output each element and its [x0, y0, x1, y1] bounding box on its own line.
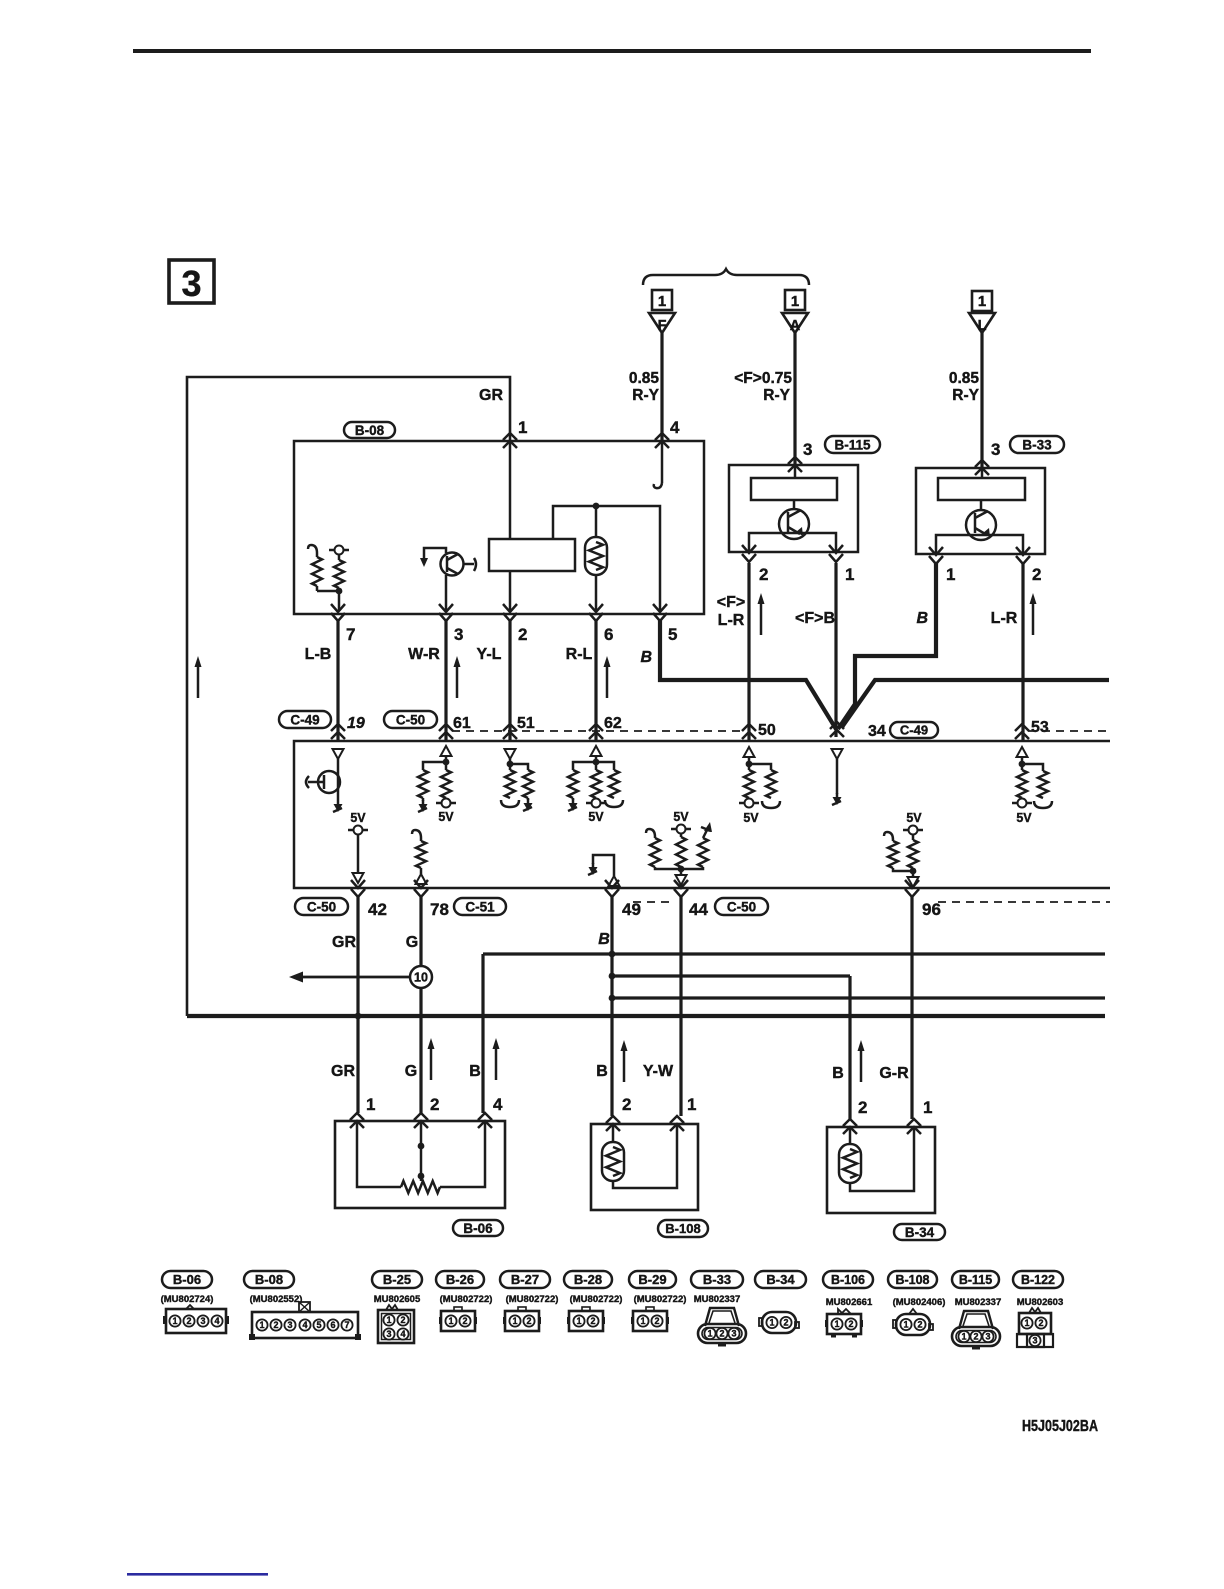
pin 49: [605, 880, 641, 919]
ECU box outline (open right): [294, 741, 1110, 888]
svg-text:4: 4: [670, 418, 680, 437]
wire G pin 78 to B-06 pin 2: [405, 897, 435, 1113]
svg-text:L-R: L-R: [718, 612, 745, 629]
wire B to B-06 pin 4: [469, 954, 499, 1113]
wire GR left loop: [187, 377, 510, 1016]
svg-text:2: 2: [719, 1329, 724, 1339]
svg-text:6: 6: [330, 1320, 335, 1330]
svg-text:1: 1: [512, 1316, 517, 1326]
svg-text:A: A: [790, 318, 801, 334]
svg-text:2: 2: [526, 1316, 531, 1326]
svg-text:1: 1: [791, 293, 799, 310]
pin 3 chevrons on B-115: [788, 440, 812, 472]
svg-text:B-06: B-06: [463, 1221, 493, 1236]
svg-text:C-50: C-50: [396, 712, 425, 727]
connector label B-08: [344, 422, 395, 438]
svg-text:(MU802722): (MU802722): [506, 1294, 559, 1305]
svg-text:1: 1: [259, 1320, 264, 1330]
svg-text:5: 5: [316, 1320, 321, 1330]
svg-text:6: 6: [604, 625, 613, 644]
svg-text:2: 2: [973, 1332, 978, 1342]
svg-text:2: 2: [858, 1098, 867, 1117]
svg-text:MU802605: MU802605: [374, 1294, 421, 1305]
B-108 pin 1 chevrons: [670, 1095, 696, 1131]
page top rule: [133, 49, 1091, 53]
svg-text:<F>0.75: <F>0.75: [734, 370, 792, 387]
svg-text:10: 10: [414, 971, 428, 985]
svg-text:2: 2: [622, 1095, 631, 1114]
legend connector B-29: [629, 1271, 686, 1331]
wire B pin 49 to B-108 pin 2: [596, 897, 627, 1116]
svg-text:4: 4: [400, 1329, 405, 1339]
wire Y-L: [477, 619, 510, 741]
connector symbol F, terminal 1: [649, 290, 675, 334]
svg-text:B: B: [640, 649, 652, 666]
svg-text:L: L: [978, 318, 987, 334]
svg-text:MU802603: MU802603: [1017, 1297, 1063, 1308]
svg-text:C-51: C-51: [465, 899, 495, 914]
ECU pin 78 resistor: [412, 830, 427, 884]
svg-text:(MU802552): (MU802552): [250, 1294, 303, 1305]
wire <F>0.75 R-Y to B-115 pin 3: [734, 333, 795, 465]
svg-text:0.85: 0.85: [949, 370, 980, 387]
B-08 internal control unit rectangle: [489, 539, 575, 571]
svg-text:R-L: R-L: [566, 646, 593, 663]
ECU pin 51 network: [501, 749, 533, 811]
legend connector B-106: [823, 1271, 873, 1338]
svg-text:C-50: C-50: [727, 899, 756, 914]
svg-text:GR: GR: [331, 1063, 355, 1080]
svg-text:R-Y: R-Y: [763, 387, 790, 404]
circled 10 reference with left arrow: [289, 966, 432, 988]
footer blue line: [127, 1573, 268, 1576]
pin 34 and label C-49: [830, 722, 938, 740]
svg-text:GR: GR: [479, 387, 503, 404]
svg-text:1: 1: [707, 1329, 712, 1339]
svg-text:(MU802722): (MU802722): [634, 1294, 687, 1305]
component box B-34 (solenoid valve): [827, 1127, 935, 1213]
ECU 5V output to pin 42: [348, 811, 368, 883]
svg-text:50: 50: [758, 722, 776, 739]
svg-text:R-Y: R-Y: [952, 387, 979, 404]
svg-text:51: 51: [517, 715, 535, 732]
connector label C-49: [279, 711, 331, 728]
svg-text:5V: 5V: [350, 811, 366, 825]
svg-text:5V: 5V: [588, 810, 604, 824]
svg-text:4: 4: [214, 1316, 219, 1326]
svg-text:B-06: B-06: [173, 1272, 201, 1287]
svg-text:H5J05J02BA: H5J05J02BA: [1022, 1418, 1098, 1435]
legend connector B-06: [161, 1271, 229, 1333]
svg-text:1: 1: [386, 1315, 391, 1325]
svg-text:3: 3: [731, 1329, 736, 1339]
dashed connector line segments: [452, 730, 744, 732]
svg-text:B: B: [916, 610, 928, 627]
svg-text:1: 1: [978, 293, 986, 310]
svg-text:<F>B: <F>B: [795, 610, 835, 627]
svg-text:1: 1: [903, 1320, 908, 1330]
svg-text:1: 1: [845, 565, 854, 584]
B-115 pin 2 chevrons: [742, 545, 768, 584]
svg-text:B: B: [832, 1065, 844, 1082]
svg-text:42: 42: [368, 900, 387, 919]
svg-text:3: 3: [1032, 1336, 1037, 1346]
svg-text:3: 3: [454, 625, 463, 644]
svg-text:7: 7: [346, 625, 355, 644]
svg-text:7: 7: [344, 1320, 349, 1330]
svg-text:62: 62: [604, 715, 622, 732]
svg-text:R-Y: R-Y: [632, 387, 659, 404]
svg-text:G: G: [405, 1063, 417, 1080]
wire Y-W pin 44 to B-108 pin 1: [643, 897, 681, 1116]
legend connector B-108: [888, 1271, 945, 1335]
svg-text:5V: 5V: [438, 810, 454, 824]
wire L-R to pin 53: [991, 563, 1037, 741]
ECU pin 53 pull-up network: [1012, 747, 1052, 825]
svg-text:G: G: [406, 934, 418, 951]
svg-text:2: 2: [848, 1319, 853, 1329]
svg-text:MU802661: MU802661: [826, 1297, 873, 1308]
svg-text:78: 78: [430, 900, 449, 919]
B-115 pin 1 chevrons: [829, 545, 854, 584]
svg-text:C-49: C-49: [900, 723, 928, 738]
svg-text:B-33: B-33: [703, 1272, 731, 1287]
figure number 3 box: [169, 260, 214, 304]
wire through rectangle to pin 2: [509, 441, 512, 539]
B-06 pin 1 chevrons: [350, 1095, 375, 1128]
wire <F> L-R to pin 50: [717, 563, 765, 741]
svg-text:GR: GR: [332, 934, 356, 951]
svg-text:C-49: C-49: [290, 712, 319, 727]
svg-text:B-115: B-115: [959, 1273, 992, 1287]
svg-text:Y-L: Y-L: [477, 646, 502, 663]
B-08 pin 7 chevrons: [331, 604, 355, 644]
pin 96: [905, 880, 941, 919]
connector label C-50: [384, 711, 437, 728]
svg-text:3: 3: [200, 1316, 205, 1326]
svg-text:W-R: W-R: [408, 646, 440, 663]
svg-text:53: 53: [1031, 719, 1049, 736]
svg-text:1: 1: [961, 1332, 966, 1342]
connector label C-50 (lower left): [295, 898, 348, 915]
svg-text:2: 2: [273, 1320, 278, 1330]
component box B-08: [294, 441, 704, 614]
pin 42: [351, 880, 387, 919]
pin 3 chevrons on B-33: [975, 440, 1000, 475]
svg-text:B-27: B-27: [511, 1272, 539, 1287]
pin 62: [589, 715, 622, 739]
svg-text:5V: 5V: [1016, 811, 1032, 825]
svg-text:B-108: B-108: [665, 1221, 700, 1236]
svg-text:4: 4: [302, 1320, 307, 1330]
wire rectangle to solenoid and pin 5: [553, 503, 660, 611]
svg-text:(MU802722): (MU802722): [570, 1294, 623, 1305]
wire GR pin 42 to B-06 pin 1: [331, 897, 358, 1113]
legend connector B-27: [500, 1271, 558, 1331]
svg-text:<F>: <F>: [717, 594, 745, 611]
B-08 pin 2 chevrons: [503, 604, 527, 644]
svg-text:1: 1: [640, 1316, 645, 1326]
junction dots on pin 49 wire: [609, 951, 616, 1002]
svg-text:L-B: L-B: [305, 646, 332, 663]
B-08 internal solenoid coil: [585, 506, 607, 611]
svg-text:2: 2: [917, 1320, 922, 1330]
svg-text:B-115: B-115: [834, 437, 871, 452]
ECU pin 61 pull-up network: [418, 746, 456, 824]
B-06 pin 2 chevrons: [414, 1095, 439, 1128]
wire 0.85 R-Y from F to B-08 pin 4: [629, 333, 662, 441]
connector label B-33: [1010, 436, 1064, 453]
pin 4 chevrons on B-08: [655, 418, 680, 448]
svg-text:(MU802722): (MU802722): [440, 1294, 493, 1305]
svg-text:1: 1: [923, 1098, 932, 1117]
legend connector B-33: [691, 1271, 746, 1347]
ECU pin 96 network: [884, 811, 923, 887]
connector label B-108: [658, 1220, 708, 1237]
svg-text:2: 2: [462, 1316, 467, 1326]
legend connector B-115: [952, 1271, 1001, 1350]
svg-text:1: 1: [658, 293, 666, 310]
svg-text:Y-W: Y-W: [643, 1063, 674, 1080]
svg-text:(MU802724): (MU802724): [161, 1294, 214, 1305]
component box B-06 (potentiometer): [335, 1121, 505, 1208]
B-08 pin 5 chevrons: [653, 604, 677, 644]
svg-text:1: 1: [834, 1319, 839, 1329]
svg-text:1: 1: [172, 1316, 177, 1326]
svg-text:4: 4: [493, 1095, 503, 1114]
B-08 pin 3 chevrons: [439, 604, 463, 644]
horizontal wire y998: [612, 996, 1105, 999]
svg-text:34: 34: [868, 723, 886, 740]
B-08 internal transistor: [420, 548, 476, 611]
horizontal wire y954: [483, 952, 1105, 955]
wire B from B-33 pin 1 (stepped, thick): [838, 563, 936, 729]
B-33 pin 1 chevrons: [929, 547, 955, 584]
ECU pin 62 network: [568, 746, 623, 824]
svg-text:1: 1: [687, 1095, 696, 1114]
ECU pin 44 network: [646, 810, 712, 885]
svg-text:1: 1: [366, 1095, 375, 1114]
svg-text:5V: 5V: [743, 811, 759, 825]
svg-text:1: 1: [1024, 1318, 1029, 1328]
svg-text:B-08: B-08: [255, 1272, 283, 1287]
svg-text:2: 2: [430, 1095, 439, 1114]
legend connector B-34: [755, 1271, 806, 1333]
thick B bus to right edge: [842, 680, 1109, 727]
svg-text:3: 3: [803, 440, 812, 459]
B-34 pin 1 chevrons: [907, 1098, 932, 1134]
svg-text:B-122: B-122: [1021, 1273, 1055, 1287]
pin 19: [331, 715, 365, 739]
svg-text:5V: 5V: [673, 810, 689, 824]
B-108 pin 2 chevrons: [606, 1095, 631, 1131]
arrow on left loop wire: [195, 656, 202, 698]
svg-text:2: 2: [1032, 565, 1041, 584]
legend connector B-28: [564, 1271, 622, 1331]
svg-text:3: 3: [386, 1329, 391, 1339]
wire <F>B to pin 34: [795, 563, 836, 737]
svg-text:B-26: B-26: [446, 1272, 474, 1287]
connector symbol L, terminal 1: [969, 291, 995, 334]
svg-text:B-33: B-33: [1022, 437, 1052, 452]
component box B-115: [729, 465, 858, 552]
svg-text:5: 5: [668, 625, 677, 644]
svg-text:B-08: B-08: [355, 423, 385, 438]
legend connector B-122: [1013, 1271, 1063, 1347]
connector symbol A, terminal 1: [782, 290, 808, 334]
svg-text:2: 2: [1038, 1318, 1043, 1328]
svg-text:1: 1: [518, 418, 527, 437]
svg-text:2: 2: [783, 1318, 788, 1328]
legend connector B-26: [436, 1271, 492, 1331]
wire L-B: [305, 619, 338, 741]
svg-text:L-R: L-R: [991, 610, 1018, 627]
horizontal wire y976 to B-34: [612, 974, 850, 977]
dashed segments lower row: [633, 901, 675, 903]
pin 51: [503, 715, 535, 739]
svg-text:B: B: [596, 1063, 608, 1080]
main horizontal bus y1016: [187, 1013, 1105, 1020]
svg-text:5V: 5V: [906, 811, 922, 825]
brace over connectors F and A: [643, 269, 809, 285]
svg-text:C-50: C-50: [307, 899, 336, 914]
pin 44 and label C-50: [674, 880, 768, 919]
wire R-L: [566, 619, 611, 741]
wire G-R pin 96 to B-34 pin 1: [879, 897, 912, 1119]
svg-text:B-34: B-34: [905, 1225, 935, 1240]
svg-text:F: F: [658, 318, 667, 334]
B-33 pin 2 chevrons: [1016, 547, 1041, 584]
svg-text:61: 61: [453, 715, 471, 732]
svg-text:MU802337: MU802337: [694, 1294, 740, 1305]
svg-text:3: 3: [985, 1332, 990, 1342]
B-08 internal resistor pair: [308, 545, 349, 611]
wire 4 dangling end: [654, 441, 662, 488]
svg-text:1: 1: [769, 1318, 774, 1328]
pin 1 chevrons on B-08: [503, 418, 527, 448]
legend connector B-25: [372, 1271, 422, 1343]
svg-text:B-106: B-106: [831, 1273, 865, 1287]
component box B-33: [916, 468, 1045, 554]
ECU pin 49 ground hook: [588, 855, 620, 886]
ECU pin 34 ground: [832, 749, 843, 805]
svg-text:2: 2: [518, 625, 527, 644]
svg-text:G-R: G-R: [879, 1065, 909, 1082]
svg-text:1: 1: [448, 1316, 453, 1326]
B-34 pin 2 chevrons: [843, 1098, 867, 1134]
page id text: [1022, 1418, 1098, 1435]
svg-text:3: 3: [181, 263, 201, 304]
svg-text:2: 2: [654, 1316, 659, 1326]
svg-text:B: B: [598, 931, 610, 948]
pin 78 and label C-51: [414, 880, 506, 919]
svg-text:B: B: [469, 1063, 481, 1080]
ECU pin 19 transistor circuit: [306, 749, 344, 812]
pin 50: [742, 722, 776, 739]
ECU pin 50 pull-up network: [739, 747, 780, 825]
svg-text:2: 2: [590, 1316, 595, 1326]
svg-text:1: 1: [576, 1316, 581, 1326]
B-08 pin 6 chevrons: [589, 604, 613, 644]
pin 53: [1015, 719, 1049, 739]
svg-text:19: 19: [347, 715, 365, 732]
svg-text:1: 1: [946, 565, 955, 584]
wire B from pin 5 (thick bus): [640, 619, 836, 729]
wire W-R: [408, 619, 460, 741]
svg-text:44: 44: [689, 900, 708, 919]
svg-text:(MU802406): (MU802406): [893, 1297, 946, 1308]
svg-text:3: 3: [991, 440, 1000, 459]
wire B to B-34 pin 2: [832, 976, 864, 1119]
component box B-108 (solenoid valve): [591, 1124, 698, 1210]
pin 61: [439, 715, 471, 739]
connector label B-06: [453, 1220, 503, 1236]
svg-text:MU802337: MU802337: [955, 1297, 1001, 1308]
svg-text:B-34: B-34: [766, 1272, 795, 1287]
svg-text:0.85: 0.85: [629, 370, 660, 387]
svg-text:2: 2: [186, 1316, 191, 1326]
svg-text:2: 2: [400, 1315, 405, 1325]
svg-text:3: 3: [287, 1320, 292, 1330]
connector label B-115: [825, 436, 880, 453]
svg-text:B-29: B-29: [638, 1272, 666, 1287]
connector label B-34: [894, 1224, 945, 1240]
svg-text:2: 2: [759, 565, 768, 584]
wire 0.85 R-Y to B-33 pin 3: [949, 333, 982, 468]
svg-text:B-108: B-108: [895, 1273, 929, 1287]
svg-text:B-28: B-28: [574, 1272, 602, 1287]
B-06 pin 4 chevrons: [478, 1095, 503, 1128]
legend connector B-08: [244, 1271, 361, 1340]
svg-text:B-25: B-25: [383, 1272, 411, 1287]
